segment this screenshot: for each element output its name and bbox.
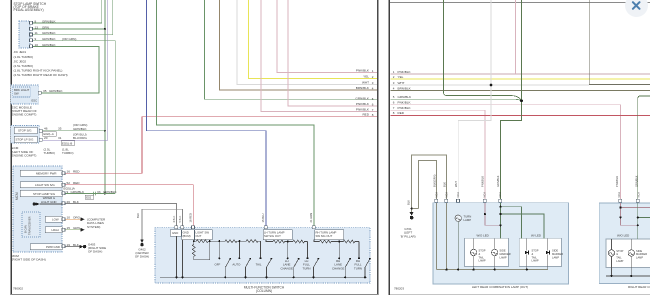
right row7 pink down to left lamp [391,110,485,199]
svg-text:16 RED: 16 RED [188,213,192,222]
wire: blue LH turn feed from page top to MFS [147,0,267,226]
right lamp bulbs [606,239,650,276]
svg-text:W/O LED: W/O LED [617,234,629,238]
svg-text:46: 46 [44,127,48,131]
grn internal branches [501,203,545,239]
svg-text:LIGHT GND: LIGHT GND [41,200,57,204]
stop lamp switch connector [19,21,30,48]
svg-text:J/C JE02: J/C JE02 [14,59,27,63]
switch stubs [218,241,220,258]
svg-text:HIGH: HIGH [52,228,59,232]
svg-text:NCA: NCA [617,192,621,198]
wire row7 pink from top x261 [261,0,377,112]
svg-text:31: 31 [58,136,62,140]
inline connector mark on green row [93,192,96,196]
bottom bus [160,276,367,278]
svg-text:NCA: NCA [498,192,502,198]
svg-text:BLK(GRN): BLK(GRN) [432,174,436,187]
svg-text:BRN/BLK: BRN/BLK [356,86,370,90]
svg-text:LEFT REAR COMBINATION LAMP (OU: LEFT REAR COMBINATION LAMP (OUT) [472,285,528,289]
ESC module caption [12,106,37,117]
svg-text:WHT: WHT [398,81,405,85]
svg-text:TAIL: TAIL [479,255,485,259]
svg-text:7: 7 [393,106,395,110]
svg-text:NCA: NCA [434,192,438,198]
wire: pin 9 down to MCM stop lamp s/g row [33,41,115,194]
inline connector labels E02 [43,132,57,136]
svg-text:TRANSCEIVER: TRANSCEIVER [28,216,32,235]
svg-text:TAIL: TAIL [616,256,622,260]
bulbs in left lamp [470,238,547,269]
svg-text:GRN/BLK: GRN/BLK [355,96,370,100]
svg-text:PNK/BLK: PNK/BLK [398,101,412,105]
MFS pin name boxes [170,230,344,240]
svg-text:4 BLK: 4 BLK [173,215,176,222]
white sub boxes [465,238,509,266]
svg-text:LIGHT SW S/G: LIGHT SW S/G [35,183,55,187]
wire: MCM stop lamp s/g green row [65,193,115,195]
svg-text:(2.5L TURBO): (2.5L TURBO) [14,64,34,68]
switch blades [225,259,230,278]
svg-text:35: 35 [43,89,47,93]
right row1 pink full width [391,73,650,75]
svg-text:LOW: LOW [52,218,59,222]
svg-text:15 BLU: 15 BLU [261,213,265,222]
MFS internals [160,236,370,277]
svg-text:2: 2 [393,75,395,79]
top vertical white joins row3 then jogs to turn lamp [458,0,491,214]
wire: MCM CAN low with arrow [65,218,80,220]
svg-text:J/C JE01: J/C JE01 [14,50,27,54]
svg-text:LAMP: LAMP [636,256,643,260]
svg-text:&: & [616,252,618,256]
svg-text:RIGHT REAR COMBINATION LA: RIGHT REAR COMBINATION LA [628,285,650,289]
svg-text:NCA: NCA [456,192,460,198]
svg-text:5: 5 [393,95,395,99]
MCM caption [12,254,46,262]
right lamp grn branches [638,203,650,239]
svg-text:SYSTEM): SYSTEM) [87,225,100,229]
wire: MCM wiper and light gnd to MFS gnd pin [33,202,36,205]
svg-text:E02: E02 [86,196,91,200]
right row2 yellow full width [391,78,650,80]
light sw out drop [193,240,195,242]
svg-text:GRN/BLK: GRN/BLK [398,95,413,99]
svg-text:CHANGE: CHANGE [332,266,344,270]
svg-text:(RIGHT SIDE OF DASH): (RIGHT SIDE OF DASH) [12,258,46,262]
svg-text:ENGINE COMPT): ENGINE COMPT) [12,153,37,157]
svg-text:STOP S/G: STOP S/G [18,129,32,133]
right row3 white to grey junction [391,84,590,86]
svg-text:BRN/BLK: BRN/BLK [398,86,412,90]
svg-text:MEMORY PWR: MEMORY PWR [36,172,56,176]
svg-text:STOP LAMP S/G: STOP LAMP S/G [33,192,56,196]
ground G701 inner path [419,161,437,209]
svg-text:SW SIG OUT: SW SIG OUT [264,234,281,238]
svg-text:8: 8 [393,111,395,115]
svg-text:&: & [479,252,481,256]
gnd drops [176,236,178,277]
svg-text:GRN/BLK: GRN/BLK [73,127,88,131]
svg-text:STOP: STOP [479,249,486,253]
wire row3 white from top x237 [237,0,377,85]
right page row pin numbers and labels [393,70,395,115]
MFS caption [244,285,285,293]
MFS top pin squares [175,226,315,229]
grn/blk from right edge down to right lamp [638,96,650,201]
svg-text:STOP LP S/G: STOP LP S/G [16,138,35,142]
svg-text:B CAN: B CAN [24,225,28,233]
MCM pin name boxes [20,170,62,250]
svg-text:4: 4 [393,86,395,90]
svg-text:OF DASH): OF DASH) [88,250,102,254]
long green vertical x104.9 top to MCM stop row [104,0,106,194]
ECM caption [12,146,37,157]
svg-text:PNK/BLK: PNK/BLK [356,107,370,111]
bulb labels [479,249,564,263]
left page row edge labels and pins [355,68,370,116]
wire: MCM CAN high with arrow [65,229,80,231]
ESC module box [11,85,39,104]
svg-text:3: 3 [393,81,395,85]
svg-text:NCA: NCA [444,192,448,198]
wire row1 pink from top x277 [277,0,377,73]
svg-text:PNK/BLK: PNK/BLK [481,176,485,187]
svg-text:PNK/BLK: PNK/BLK [398,106,412,110]
svg-text:PWR GND: PWR GND [46,245,60,249]
svg-text:CHANGE: CHANGE [281,266,293,270]
svg-text:W/ LED: W/ LED [531,234,541,238]
svg-text:21 GRN: 21 GRN [309,213,313,223]
svg-text:OF DASH): OF DASH) [135,255,149,259]
svg-text:WHT: WHT [454,181,458,187]
svg-text:E02(L-A: E02(L-A [44,132,54,136]
wire: stop lamp sw pin 8 to top [33,0,102,23]
svg-text:GRN/BLK: GRN/BLK [49,89,64,93]
ECM stop s/g wire to green vertical [43,130,105,132]
right page frame [390,2,650,4]
svg-text:PNK/BLK: PNK/BLK [615,176,619,187]
RH turn drop and resistors [314,240,359,243]
right row4 brown full width [391,90,650,92]
LH turn drop and resistors [266,240,308,243]
right row5 green to junction dot [391,99,522,101]
svg-text:TAIL: TAIL [532,255,538,259]
svg-text:PNK/BLK: PNK/BLK [398,70,412,74]
svg-text:SIDE: SIDE [552,249,558,253]
svg-text:BLK: BLK [442,182,446,187]
svg-text:SIDE: SIDE [500,249,506,253]
svg-text:BLU/ORG: BLU/ORG [73,136,88,140]
svg-text:GRN/BLK: GRN/BLK [634,175,638,187]
svg-text:YEL: YEL [398,75,404,79]
svg-text:BLK: BLK [407,200,411,205]
svg-text:(1.8L TURBO RIGHT KICK PANEL): (1.8L TURBO RIGHT KICK PANEL) [14,69,63,73]
svg-text:1: 1 [393,70,395,74]
wire row6 pink from top x288 [288,0,377,106]
svg-text:NCA: NCA [483,192,487,198]
B CAN transceiver inner box [22,212,40,237]
wire: stop lamp sw pin 13 joins long green vertical [33,28,105,30]
svg-text:OUT: OUT [196,234,202,238]
MULTI-FUNCTION SWITCH box [155,227,370,283]
svg-text:E02(L-B: E02(L-B [62,141,72,145]
wire: MCM light sw s/g red to MFS light sw out [65,185,193,226]
wire: MCM pwr gnd to ground G403 [65,246,79,248]
svg-text:ESC: ESC [32,99,38,103]
svg-text:NCA: NCA [636,192,640,198]
right row8 red full width [391,114,650,116]
svg-text:SW: SW [14,91,19,95]
blk return wires in left lamp [437,203,548,270]
svg-text:MCM: MCM [15,192,19,200]
turn lamp bulb [455,215,461,221]
svg-text:780002: 780002 [13,286,23,290]
svg-text:SW SIG OUT: SW SIG OUT [316,234,333,238]
top vertical grey turns right at row3 junction [589,0,650,85]
svg-text:TURN: TURN [354,266,362,270]
svg-text:MARKER: MARKER [636,252,647,256]
svg-text:W/O LED: W/O LED [477,234,489,238]
svg-text:(1.8L TURBO): (1.8L TURBO) [14,55,34,59]
MCM box [13,166,62,252]
svg-text:TAIL: TAIL [256,263,262,267]
right lamp wire labels [615,175,640,197]
MCM pin squares [62,172,65,248]
ECM box [11,126,40,143]
stop lamp switch title [14,2,47,12]
wire: pin 11 to top [33,0,113,35]
svg-text:ENGINE COMPT): ENGINE COMPT) [12,113,37,117]
svg-text:AUTO: AUTO [232,263,241,267]
right row6 pink down to right lamp [391,105,621,201]
svg-text:TURBO): TURBO) [62,151,74,155]
LED symbols [525,251,529,255]
svg-text:WHT: WHT [362,80,369,84]
left page frame [10,0,12,295]
svg-text:OFF: OFF [215,263,221,267]
svg-text:5 BLK: 5 BLK [179,215,182,222]
svg-text:STOP: STOP [532,249,539,253]
svg-text:PNK/BLK: PNK/BLK [356,102,370,106]
top vertical green bends to junction [444,0,522,101]
wire: green RH turn feed from page top to MFS [156,0,314,226]
svg-text:TURBO): TURBO) [44,151,56,155]
MFS junction dots [175,240,370,278]
svg-text:'B' PILLAR): 'B' PILLAR) [400,234,415,238]
svg-text:(COLUMN): (COLUMN) [256,289,272,293]
switch labels [215,263,262,267]
svg-text:MARKER: MARKER [500,252,511,256]
svg-text:RED: RED [362,113,369,117]
LEFT REAR COMBINATION LAMP box [433,203,569,284]
svg-text:RED: RED [398,111,405,115]
svg-text:&: & [532,252,534,256]
svg-text:STOP: STOP [616,249,623,253]
wire row5 green from top x204.6 [205,0,377,99]
svg-text:GRN/BLK: GRN/BLK [496,175,500,187]
close button [625,0,648,17]
svg-text:SIDE: SIDE [636,249,642,253]
svg-text:LAMP: LAMP [479,259,486,263]
svg-text:5: 5 [372,97,374,101]
svg-text:GND: GND [172,231,178,235]
svg-text:PNK/BLK: PNK/BLK [356,68,370,72]
RIGHT REAR COMBINATION LAMP box [599,203,650,284]
left lamp wire labels rotated [432,174,502,197]
wire: MFS gnd(bcm) to ground G402 [142,209,183,239]
left lamp pin squares [435,199,502,202]
top vertical dark green to junction then left lamp grn/blk pin [500,0,521,199]
wire: MCM memory pwr red up and right as row8 [65,117,376,174]
svg-text:LAMP: LAMP [532,259,539,263]
svg-text:780203: 780203 [394,286,404,290]
svg-text:BLK: BLK [136,213,140,218]
svg-text:MARKER: MARKER [552,252,563,256]
ground G701 outer path [412,155,447,212]
top vertical pink joins row1 [515,0,517,74]
svg-text:LAMP: LAMP [552,255,559,259]
svg-text:LAMP: LAMP [616,259,623,263]
purple vertical from top to ECM stop lp s/g [43,0,108,140]
svg-text:35: 35 [58,127,62,131]
svg-text:LAMP: LAMP [464,218,472,222]
svg-text:YEL: YEL [363,74,369,78]
pnk internal branch joins grn node [485,203,501,226]
resistor ladder row [194,240,261,243]
svg-text:PEDAL ASSEMBLY): PEDAL ASSEMBLY) [14,8,44,12]
svg-text:6: 6 [393,101,395,105]
svg-text:LAMP: LAMP [500,255,507,259]
parallel resistor loop [192,241,209,260]
wire: pin 10 to ESC module [33,47,99,94]
wire row4 brown from top x219.5 [220,0,377,90]
svg-text:TURN: TURN [302,266,310,270]
svg-text:(2.5L TURBO RIGHT REAR OF DASH: (2.5L TURBO RIGHT REAR OF DASH) [14,73,68,77]
wire row2 yellow from top x248.5 [249,0,377,79]
svg-text:(BCM): (BCM) [183,234,191,238]
right lamp pnk branch joins grn node [621,203,650,225]
J/C notes [14,50,68,77]
svg-text:20: 20 [44,136,48,140]
